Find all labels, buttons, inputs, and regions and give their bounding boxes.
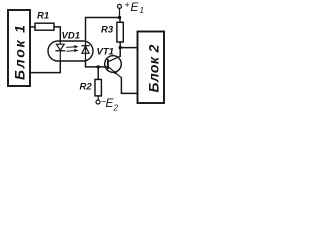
- svg-text:2: 2: [113, 104, 119, 113]
- wire node to collector: [119, 48, 121, 57]
- svg-text:1: 1: [140, 6, 144, 15]
- wire photodiode cathode to +E1 node: [86, 18, 120, 42]
- wire node to block2: [120, 47, 137, 49]
- wire node to R2: [97, 67, 99, 80]
- svg-text:Блок 2: Блок 2: [146, 44, 162, 92]
- light arrow 1: [67, 45, 79, 48]
- wire node to R3: [119, 18, 121, 23]
- svg-text:+: +: [125, 0, 130, 10]
- wire R2 to terminal: [97, 96, 99, 100]
- wire LED cathode to block1: [30, 61, 60, 73]
- node collector junction: [119, 46, 122, 49]
- svg-text:R3: R3: [101, 25, 114, 36]
- terminal +E1: [118, 4, 122, 8]
- svg-text:R2: R2: [80, 82, 93, 93]
- node at +E1 junction: [118, 16, 121, 19]
- resistor R1: [35, 23, 54, 30]
- photodiode of VD1: [85, 41, 87, 61]
- LED diode of VD1: [59, 41, 61, 44]
- node base junction: [97, 65, 100, 68]
- svg-text:E: E: [131, 0, 140, 14]
- wire emitter to block2: [121, 78, 137, 94]
- svg-text:R1: R1: [37, 11, 49, 22]
- block 1 (Блок 1): [8, 10, 30, 86]
- wire terminal to node: [119, 8, 121, 17]
- svg-text:Блок 1: Блок 1: [12, 23, 28, 80]
- transistor VT1: [105, 56, 122, 73]
- wire R1 to LED anode: [54, 27, 60, 41]
- wire block1 to R1: [30, 26, 35, 28]
- svg-text:VD1: VD1: [62, 31, 80, 42]
- wire R3 to collector node: [119, 42, 121, 48]
- terminal -E2: [96, 100, 100, 104]
- svg-text:VT1: VT1: [97, 47, 114, 58]
- block 2 (Блок 2): [138, 32, 165, 104]
- light arrow 2: [67, 49, 79, 52]
- resistor R3: [117, 22, 123, 42]
- wire photodiode anode to base: [86, 61, 108, 67]
- optocoupler U1 body VD1: [48, 41, 93, 61]
- resistor R2: [95, 79, 101, 96]
